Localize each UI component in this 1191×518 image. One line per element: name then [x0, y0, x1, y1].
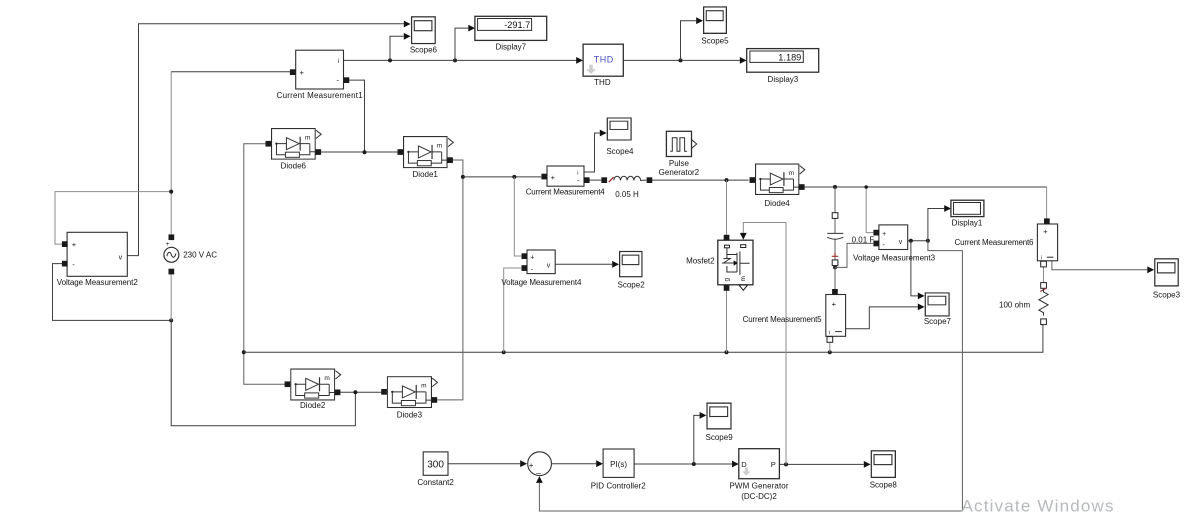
- svg-text:P: P: [771, 460, 776, 469]
- svg-text:+: +: [166, 241, 170, 248]
- wire CM5 i out to Scope7 input2: [846, 307, 918, 329]
- svg-text:(DC-DC)2: (DC-DC)2: [741, 492, 777, 501]
- wire mosfet source to rail: [726, 291, 728, 353]
- svg-text:g: g: [723, 278, 730, 282]
- resistor 100 ohm: [1039, 283, 1048, 325]
- junction CM1- / diode leg: [363, 150, 367, 154]
- svg-text:Diode1: Diode1: [413, 170, 439, 179]
- wire VM4 minus down to rail: [504, 268, 522, 352]
- wire capacitor bottom segment: [834, 239, 836, 268]
- block Current Measurement6: [1037, 218, 1057, 267]
- svg-text:1.189: 1.189: [778, 52, 801, 62]
- block Diode4: [750, 164, 805, 194]
- arrowhead sum bottom input: [536, 476, 543, 483]
- wire branch up to Scope5: [681, 21, 697, 61]
- svg-text:v: v: [547, 262, 551, 269]
- svg-text:v: v: [899, 239, 903, 246]
- block PWM Generator (DC-DC)2: [739, 449, 780, 479]
- svg-text:0.05 H: 0.05 H: [615, 190, 639, 199]
- arrowhead Scope7 in2: [918, 304, 925, 311]
- wire CM1 minus to bridge midpoint: [349, 80, 364, 152]
- svg-text:Scope3: Scope3: [1153, 291, 1181, 300]
- wire CM5 bottom to rail: [829, 342, 831, 352]
- arrowhead Display3 input: [740, 57, 747, 64]
- arrowhead PID input: [596, 460, 603, 467]
- svg-text:+: +: [530, 254, 534, 261]
- svg-text:THD: THD: [594, 55, 614, 65]
- wire branch to Display7: [455, 28, 468, 60]
- junction rail CM5 bottom: [828, 350, 832, 354]
- wire AC top to Current Measurement1 plus: [170, 72, 172, 235]
- svg-text:PWM Generator: PWM Generator: [730, 481, 789, 490]
- junction AC/VM2+: [169, 190, 173, 194]
- svg-text:Current Measurement5: Current Measurement5: [743, 315, 823, 324]
- svg-text:Constant2: Constant2: [417, 478, 454, 487]
- svg-text:Display7: Display7: [495, 43, 526, 52]
- junction bottom rail left end: [242, 350, 246, 354]
- wire inductor to Diode4: [652, 179, 748, 181]
- svg-text:–: –: [536, 468, 541, 478]
- block Voltage Measurement3: [873, 225, 907, 250]
- block Display3: [747, 49, 819, 73]
- block Diode1: [398, 137, 454, 168]
- wire Diode1 out down to Diode3 out (cathode bus): [437, 160, 463, 400]
- arrowhead Scope4 input: [600, 130, 607, 137]
- wire Diode2 input branch: [244, 352, 287, 384]
- block Scope7: [925, 293, 949, 316]
- wire CM1 i output main line to THD: [344, 59, 578, 61]
- wire feedback long loop to sum: [539, 241, 962, 511]
- block Scope9: [707, 403, 731, 429]
- svg-text:+: +: [832, 299, 837, 308]
- svg-text:Voltage Measurement2: Voltage Measurement2: [57, 278, 139, 287]
- block Mosfet2: [718, 235, 753, 291]
- block Voltage Measurement2: [62, 232, 127, 276]
- svg-text:Display3: Display3: [768, 75, 799, 84]
- arrowhead mosfet gate (down): [740, 233, 747, 240]
- svg-text:Pulse: Pulse: [669, 159, 690, 168]
- junction mosfet gate branch: [784, 462, 788, 466]
- junction rail mosfet source: [725, 350, 729, 354]
- svg-text:Mosfet2: Mosfet2: [686, 256, 715, 265]
- wire down to mosfet drain: [726, 180, 728, 235]
- wire branch up to Scope9: [694, 415, 700, 464]
- svg-text:-291.7: -291.7: [504, 20, 530, 30]
- wire segment to CM1: [171, 71, 290, 73]
- svg-text:PID Controller2: PID Controller2: [591, 481, 647, 490]
- svg-text:+: +: [300, 68, 305, 77]
- junction VM3 plus on rail: [864, 185, 868, 189]
- junction VM3 out scope7 branch: [909, 239, 913, 243]
- svg-text:100 ohm: 100 ohm: [999, 301, 1030, 310]
- block Current Measurement1: [290, 50, 349, 89]
- wire branch to Scope6 input2: [390, 36, 404, 60]
- svg-text:Current Measurement6: Current Measurement6: [955, 238, 1035, 247]
- capacitor 0.01 F: [827, 213, 843, 266]
- svg-text:+: +: [529, 461, 534, 470]
- svg-text:m: m: [740, 276, 747, 281]
- wire Diode6 input from left vertical: [244, 144, 268, 353]
- arrowhead Display7 input: [468, 25, 475, 32]
- wire CM4 i out to Scope4: [584, 133, 600, 172]
- block Diode6: [266, 129, 322, 160]
- arrowhead sum input: [520, 460, 527, 467]
- svg-text:Scope2: Scope2: [618, 281, 646, 290]
- block PID Controller2: [603, 449, 634, 477]
- junction diode2/3 midpoint: [353, 390, 357, 394]
- svg-text:THD: THD: [594, 78, 611, 87]
- arrowhead Scope8 input: [864, 461, 871, 468]
- svg-text:Diode6: Diode6: [281, 161, 307, 170]
- wire branch down to VM4 plus: [514, 177, 521, 256]
- wire THD out to Display3: [623, 59, 740, 61]
- block Diode3: [381, 377, 437, 408]
- wire gate signal up to mosfet: [743, 223, 786, 465]
- svg-text:Voltage Measurement3: Voltage Measurement3: [853, 254, 936, 263]
- wire Diode4 out rail to CM6: [802, 186, 1046, 188]
- junction scope6 branch: [388, 58, 392, 62]
- svg-text:Display1: Display1: [952, 218, 983, 227]
- block Current Measurement4: [541, 166, 589, 186]
- block Scope8: [871, 451, 895, 478]
- wire junction down to CM5 top: [834, 267, 836, 290]
- source AC 230V: [164, 234, 179, 274]
- svg-text:Diode2: Diode2: [300, 401, 326, 410]
- svg-text:Generator2: Generator2: [659, 168, 700, 177]
- wire CM6 i out to Scope3: [1052, 261, 1147, 270]
- arrowhead Scope6 in2: [404, 33, 411, 40]
- junction display7 branch: [453, 58, 457, 62]
- junction VM2-/AC bottom: [169, 318, 173, 322]
- svg-text:i: i: [338, 59, 339, 65]
- wire branch up to Display1: [928, 209, 944, 241]
- block Scope3: [1155, 259, 1179, 286]
- wire Diode6 out to Diode1 in: [318, 151, 400, 153]
- arrowhead Scope9 input: [700, 412, 707, 419]
- wire VM3 plus from rail: [866, 187, 873, 233]
- block Voltage Measurement4: [522, 250, 556, 274]
- svg-text:Scope5: Scope5: [701, 37, 729, 46]
- svg-text:v: v: [119, 254, 123, 261]
- wire CM4 minus to inductor: [590, 179, 602, 181]
- svg-text:Current Measurement1: Current Measurement1: [277, 91, 364, 100]
- inductor 0.05 H: [601, 176, 652, 183]
- arrowhead Scope2 input: [612, 261, 619, 268]
- svg-text:230 V AC: 230 V AC: [183, 251, 217, 260]
- wire down into CM6 plus: [1046, 187, 1048, 219]
- wire AC bottom down: [170, 274, 172, 320]
- junction mosfet drain branch: [725, 178, 729, 182]
- block Constant2: [423, 452, 448, 475]
- block Display7: [475, 16, 547, 40]
- svg-text:+: +: [882, 231, 886, 238]
- junction Scope5 branch: [679, 58, 683, 62]
- svg-text:Scope8: Scope8: [870, 481, 898, 490]
- wire VM3 minus branch: [835, 243, 873, 267]
- svg-text:Diode4: Diode4: [764, 199, 790, 208]
- arrowhead Scope6 in1: [404, 21, 411, 28]
- wire sum out to PID: [552, 463, 596, 465]
- junction top rail VM4 branch: [512, 175, 516, 179]
- wire bottom rail: [244, 324, 1043, 352]
- junction capacitor branch: [833, 185, 837, 189]
- svg-text:+: +: [551, 173, 556, 182]
- block Current Measurement5: [826, 289, 846, 342]
- block Sum2: [528, 452, 552, 478]
- svg-text:Scope9: Scope9: [706, 433, 734, 442]
- junction cap bottom / VM3 minus: [833, 265, 837, 269]
- svg-text:Scope6: Scope6: [410, 46, 438, 55]
- block Scope4: [607, 118, 631, 140]
- junction Scope9 branch: [692, 462, 696, 466]
- arrowhead Scope7 in1: [918, 293, 925, 300]
- wire PWM out to Scope8: [780, 463, 864, 465]
- wire branch down to Scope7 input1: [911, 241, 918, 296]
- block Scope6: [412, 17, 436, 44]
- arrowhead THD input: [576, 57, 583, 64]
- block Scope2: [620, 251, 642, 276]
- svg-text:+: +: [1043, 227, 1048, 236]
- wire Constant2 to sum: [448, 463, 520, 465]
- svg-text:Diode3: Diode3: [397, 410, 423, 419]
- svg-text:Activate Windows: Activate Windows: [962, 497, 1114, 516]
- arrowhead Display1 input: [944, 205, 951, 212]
- svg-text:Scope7: Scope7: [924, 317, 952, 326]
- wire CM6 bottom to resistor: [1043, 267, 1045, 283]
- svg-text:Voltage Measurement4: Voltage Measurement4: [501, 278, 582, 287]
- junction VM3 out display1/feedback branch: [926, 239, 930, 243]
- junction cathode bus to top rail: [461, 175, 465, 179]
- arrowhead Scope3 input: [1147, 266, 1154, 273]
- wire capacitor top segment: [834, 187, 836, 233]
- arrowhead Scope5 input: [696, 17, 703, 24]
- block Display1: [951, 200, 984, 216]
- wire branch junction AC to VM2 plus: [55, 192, 171, 245]
- svg-text:PI(s): PI(s): [610, 460, 627, 469]
- svg-text:Scope4: Scope4: [606, 147, 634, 156]
- svg-text:300: 300: [427, 459, 444, 470]
- wire VM2.minus loop: [53, 264, 172, 321]
- arrowhead PWM input: [732, 461, 739, 468]
- wire Diode2 out to Diode3 in: [338, 391, 384, 393]
- block THD: [583, 44, 623, 76]
- svg-text:+: +: [72, 240, 77, 249]
- block Diode2: [285, 369, 341, 400]
- wire top rail to CM4: [463, 176, 541, 178]
- block Scope5: [704, 7, 727, 33]
- wire PID out to PWM gen: [634, 463, 732, 465]
- junction rail VM4 minus: [502, 350, 506, 354]
- block Pulse Generator2: [666, 131, 696, 156]
- wire AC bottom to Diode2/Diode3 midpoint: [171, 320, 355, 425]
- wire VM4 v out to Scope2: [555, 263, 612, 265]
- svg-text:Current Measurement4: Current Measurement4: [526, 187, 606, 196]
- svg-text:0.01 F: 0.01 F: [852, 235, 875, 244]
- wire VM3 v output: [908, 240, 928, 242]
- wire VM2.v to Scope6 input1: [127, 24, 404, 256]
